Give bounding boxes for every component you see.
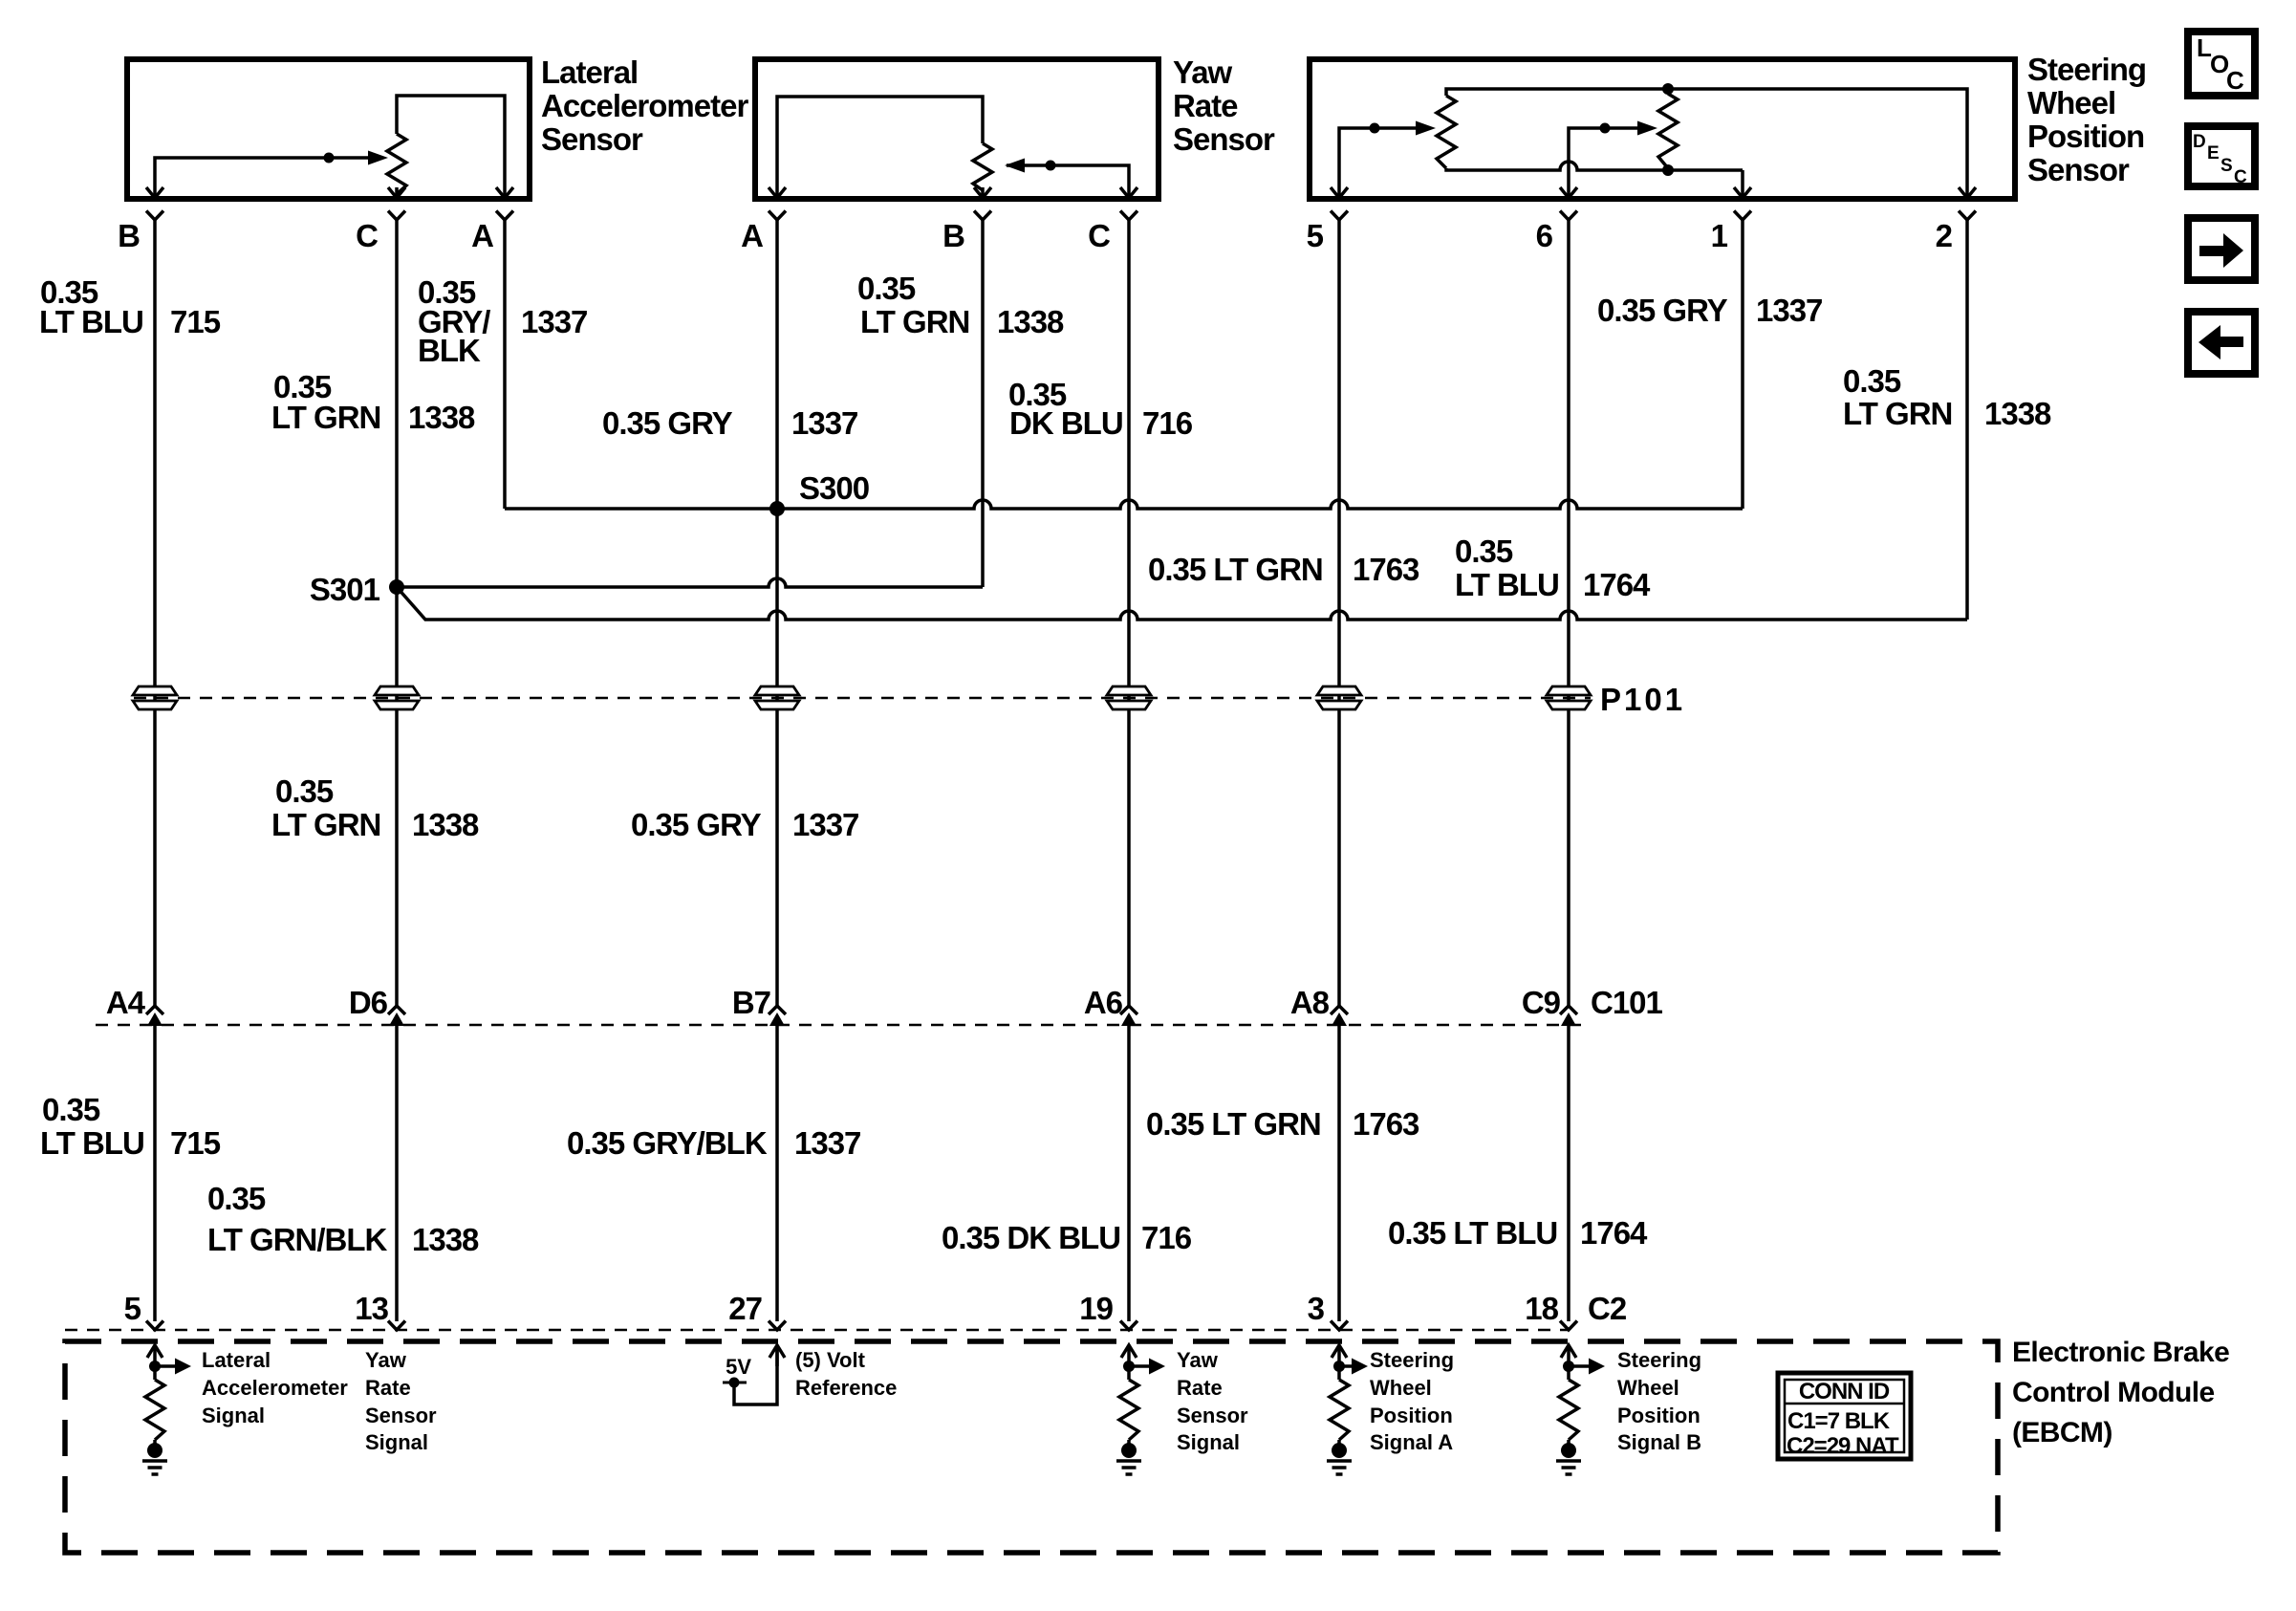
- svg-text:E: E: [2207, 143, 2220, 163]
- svg-text:715: 715: [170, 1125, 221, 1161]
- svg-text:1337: 1337: [521, 304, 587, 339]
- svg-text:Accelerometer: Accelerometer: [541, 88, 748, 123]
- pin C terminal fork: [388, 211, 405, 221]
- wire pin 6 internal: [1569, 128, 1648, 196]
- svg-text:Steering: Steering: [2027, 52, 2146, 87]
- svg-text:B: B: [118, 218, 140, 253]
- EBCM 5V reference circuit: [769, 1345, 785, 1358]
- resistor steering R1: [1437, 96, 1456, 168]
- wire 5 steering to EBCM pin3: [1337, 220, 1341, 1007]
- svg-text:C1=7 BLK: C1=7 BLK: [1787, 1408, 1891, 1434]
- svg-text:LT BLU: LT BLU: [40, 1125, 144, 1161]
- svg-text:0.35: 0.35: [857, 271, 916, 306]
- previous arrow icon box: [2188, 312, 2255, 374]
- EBCM connector dashed line: [65, 1329, 1569, 1332]
- svg-text:Sensor: Sensor: [1177, 1404, 1248, 1427]
- svg-text:6: 6: [1536, 218, 1553, 253]
- wire 6 steering to EBCM pin18: [1567, 220, 1570, 1007]
- splice S300: [769, 501, 785, 516]
- pin 2 terminal fork: [1959, 211, 1976, 221]
- label 0.35 LT BLU 715 lower: [40, 1092, 221, 1161]
- svg-text:1338: 1338: [997, 304, 1064, 339]
- arrow into pin A: [496, 187, 513, 198]
- svg-text:Wheel: Wheel: [1617, 1376, 1679, 1400]
- svg-text:B: B: [942, 218, 964, 253]
- label 0.35 GRY 1337 steering: [1597, 293, 1822, 328]
- wire B yaw to S301: [981, 220, 985, 587]
- svg-text:(EBCM): (EBCM): [2012, 1417, 2112, 1448]
- label 0.35 DK BLU 716 lower: [942, 1220, 1192, 1255]
- EBCM pin 19 terminal fork: [1120, 1321, 1137, 1331]
- svg-text:1764: 1764: [1580, 1215, 1648, 1251]
- DESC icon box: [2188, 126, 2255, 187]
- label 0.35 LT GRN 1763 lower: [1146, 1106, 1419, 1142]
- svg-text:A4: A4: [106, 985, 146, 1020]
- svg-text:Rate: Rate: [365, 1376, 411, 1400]
- wire resistor top loop to pin A: [397, 96, 505, 196]
- svg-text:0.35 DK BLU: 0.35 DK BLU: [942, 1220, 1120, 1255]
- pin 6 terminal fork: [1560, 211, 1577, 221]
- svg-text:18: 18: [1525, 1291, 1558, 1326]
- node top rail R2: [1662, 83, 1674, 95]
- arrow into pin A yaw: [769, 187, 786, 198]
- node wiper junction box1: [324, 153, 335, 163]
- svg-text:Position: Position: [1617, 1404, 1700, 1427]
- svg-text:Signal: Signal: [202, 1404, 265, 1427]
- label 0.35 GRY/BLK 1337: [418, 274, 587, 368]
- label 0.35 LT GRN 1338 lateral: [271, 369, 475, 435]
- svg-text:Control Module: Control Module: [2012, 1377, 2215, 1408]
- svg-text:1337: 1337: [794, 1125, 860, 1161]
- connector P101 pass-through at x813: [755, 686, 799, 695]
- label 0.35 LT BLU 715: [39, 274, 221, 339]
- pin 5 terminal fork: [1331, 211, 1348, 221]
- pin B terminal fork: [146, 211, 163, 221]
- CONN ID table: [1778, 1373, 1911, 1459]
- wire pin 5 internal: [1339, 128, 1426, 196]
- connector P101 pass-through at x1641: [1547, 686, 1591, 695]
- EBCM lateral accelerometer signal circuit: [147, 1345, 162, 1358]
- svg-text:Steering: Steering: [1370, 1348, 1454, 1372]
- EBCM 5 volt reference text: [795, 1348, 897, 1400]
- svg-text:0.35: 0.35: [42, 1092, 100, 1127]
- wire S300 splice run: [505, 500, 1743, 509]
- connector C101 terminal A4: [146, 1006, 163, 1014]
- EBCM steering wheel position signal B text: [1617, 1348, 1701, 1454]
- svg-text:B7: B7: [732, 985, 770, 1020]
- EBCM lateral accelerometer signal text: [202, 1348, 348, 1427]
- wiper arrow into R2: [1637, 121, 1657, 136]
- connector P101 pass-through at x162: [133, 686, 177, 695]
- svg-text:S301: S301: [310, 572, 380, 607]
- svg-text:Yaw: Yaw: [365, 1348, 407, 1372]
- splice S301: [389, 579, 404, 595]
- EBCM pin 5 terminal fork: [146, 1321, 163, 1331]
- pin A terminal fork: [769, 211, 786, 221]
- svg-text:1337: 1337: [792, 807, 858, 842]
- svg-text:0.35 LT GRN: 0.35 LT GRN: [1148, 552, 1323, 587]
- arrow into pin 1: [1734, 187, 1751, 198]
- pin A terminal fork: [496, 211, 513, 221]
- resistor lateral accelerometer: [387, 134, 406, 194]
- resistor steering R2: [1666, 89, 1670, 94]
- svg-text:1337: 1337: [1756, 293, 1822, 328]
- EBCM pin 27 terminal fork: [769, 1321, 786, 1331]
- pin B terminal fork: [974, 211, 991, 221]
- EBCM steering wheel position signal A circuit: [1332, 1345, 1347, 1358]
- pin C terminal fork: [1120, 211, 1137, 221]
- EBCM steering wheel position signal A text: [1370, 1348, 1454, 1454]
- wire S301 branch to yaw B: [397, 578, 983, 587]
- svg-text:1: 1: [1711, 218, 1728, 253]
- svg-text:LT BLU: LT BLU: [39, 304, 143, 339]
- svg-text:715: 715: [170, 304, 221, 339]
- svg-text:D: D: [2193, 132, 2206, 152]
- EBCM steering wheel position signal B circuit: [1561, 1345, 1576, 1358]
- connector P101 dashed line: [134, 697, 1591, 700]
- label 0.35 GRY 1337 yaw: [602, 405, 857, 441]
- svg-text:Sensor: Sensor: [2027, 152, 2130, 187]
- svg-text:A: A: [471, 218, 493, 253]
- svg-text:Signal: Signal: [1177, 1430, 1240, 1454]
- wire 1 steering to S300: [1741, 220, 1744, 509]
- svg-text:Electronic Brake: Electronic Brake: [2012, 1337, 2229, 1368]
- svg-text:C2=29 NAT: C2=29 NAT: [1787, 1433, 1899, 1459]
- svg-text:1763: 1763: [1353, 552, 1419, 587]
- wiper arrow yaw: [1005, 159, 1025, 173]
- arrow resistor to pin C: [395, 187, 399, 197]
- next arrow icon box: [2188, 218, 2255, 280]
- svg-text:5: 5: [124, 1291, 141, 1326]
- connector P101 pass-through at x1401: [1317, 686, 1361, 695]
- wire S301 branch to steering 2: [397, 587, 1967, 620]
- svg-text:Yaw: Yaw: [1177, 1348, 1219, 1372]
- wire pin B internal: [155, 158, 382, 196]
- LOC icon box: [2188, 32, 2255, 96]
- connector C101 terminal A8: [1331, 1006, 1348, 1014]
- label 0.35 LT GRN 1338 mid: [271, 773, 479, 842]
- svg-text:27: 27: [728, 1291, 762, 1326]
- svg-text:Rate: Rate: [1173, 88, 1238, 123]
- top rail steering sensor: [1446, 89, 1967, 196]
- EBCM module dashed box: [65, 1341, 1998, 1553]
- svg-text:0.35: 0.35: [207, 1181, 266, 1216]
- wire pin A yaw internal: [777, 97, 983, 196]
- svg-text:LT GRN: LT GRN: [271, 807, 380, 842]
- connector P101 pass-through at x415: [375, 686, 419, 695]
- EBCM yaw rate sensor signal text pin19: [1177, 1348, 1248, 1454]
- svg-text:A6: A6: [1084, 985, 1123, 1020]
- label 0.35 DK BLU 716: [1008, 377, 1193, 441]
- connector C101 terminal D6: [388, 1006, 405, 1014]
- svg-text:(5) Volt: (5) Volt: [795, 1348, 866, 1372]
- svg-text:LT GRN: LT GRN: [271, 400, 380, 435]
- svg-text:Lateral: Lateral: [202, 1348, 271, 1372]
- arrow into pin 2: [1959, 187, 1976, 198]
- wiper arrow box1: [368, 151, 388, 165]
- svg-text:1337: 1337: [791, 405, 857, 441]
- steering wheel position sensor box: [1310, 59, 2015, 199]
- svg-text:0.35 LT GRN: 0.35 LT GRN: [1146, 1106, 1321, 1142]
- EBCM module label: [2012, 1337, 2229, 1448]
- connector C101 terminal B7: [769, 1006, 786, 1014]
- connector C101 terminal A6: [1120, 1006, 1137, 1014]
- svg-text:Sensor: Sensor: [1173, 121, 1275, 157]
- svg-text:Reference: Reference: [795, 1376, 897, 1400]
- lateral accelerometer sensor box: [127, 59, 530, 199]
- svg-text:716: 716: [1141, 1220, 1192, 1255]
- wire C lateral accel to EBCM pin13: [395, 220, 399, 1007]
- svg-text:1338: 1338: [1984, 396, 2051, 431]
- svg-text:1338: 1338: [412, 1222, 479, 1257]
- wire B lateral accel to EBCM pin5: [153, 220, 157, 1007]
- svg-text:CONN ID: CONN ID: [1799, 1379, 1890, 1404]
- svg-text:LT BLU: LT BLU: [1455, 567, 1559, 602]
- svg-text:A: A: [741, 218, 763, 253]
- svg-text:C: C: [356, 218, 378, 253]
- arrow into pin C yaw: [1120, 187, 1137, 198]
- svg-text:0.35 GRY: 0.35 GRY: [1597, 293, 1728, 328]
- svg-text:A8: A8: [1290, 985, 1330, 1020]
- node pin5 wiper: [1370, 123, 1380, 134]
- svg-text:Signal: Signal: [365, 1430, 428, 1454]
- svg-text:DK BLU: DK BLU: [1009, 405, 1123, 441]
- yaw rate sensor box: [755, 59, 1159, 199]
- svg-text:S300: S300: [799, 470, 869, 506]
- wire A yaw to EBCM pin27: [775, 220, 779, 1007]
- yaw rate sensor label: [1173, 54, 1275, 157]
- svg-text:0.35 LT BLU: 0.35 LT BLU: [1388, 1215, 1557, 1251]
- node wiper junction yaw: [1046, 161, 1056, 171]
- svg-text:0.35: 0.35: [275, 773, 334, 809]
- wire C yaw to EBCM pin19: [1127, 220, 1131, 1007]
- svg-text:Wheel: Wheel: [1370, 1376, 1432, 1400]
- wire pin C yaw internal: [1007, 165, 1129, 196]
- svg-text:0.35 GRY: 0.35 GRY: [602, 405, 733, 441]
- label 0.35 LT BLU 1764 upper: [1455, 533, 1651, 602]
- svg-text:1763: 1763: [1353, 1106, 1419, 1142]
- svg-text:0.35: 0.35: [1843, 363, 1901, 399]
- wire 2 steering to S301: [1965, 220, 1969, 620]
- arrow into pin 5: [1331, 187, 1348, 198]
- svg-text:Signal B: Signal B: [1617, 1430, 1701, 1454]
- svg-text:P101: P101: [1600, 682, 1685, 717]
- svg-text:Wheel: Wheel: [2027, 85, 2115, 120]
- svg-text:2: 2: [1936, 218, 1953, 253]
- label 0.35 GRY 1337 mid: [631, 807, 858, 842]
- svg-text:0.35 GRY: 0.35 GRY: [631, 807, 762, 842]
- label 0.35 LT GRN 1763 upper: [1148, 552, 1419, 587]
- svg-text:Position: Position: [1370, 1404, 1453, 1427]
- connector P101 pass-through at x1181: [1107, 686, 1151, 695]
- svg-text:LT GRN: LT GRN: [1843, 396, 1952, 431]
- svg-text:Lateral: Lateral: [541, 54, 638, 90]
- connector C101 terminal C9: [1560, 1006, 1577, 1014]
- svg-text:Yaw: Yaw: [1173, 54, 1233, 90]
- EBCM pin 13 terminal fork: [388, 1321, 405, 1331]
- resistor yaw rate: [973, 143, 992, 190]
- arrow into pin 6: [1560, 187, 1577, 198]
- svg-text:5: 5: [1307, 218, 1324, 253]
- svg-text:13: 13: [355, 1291, 388, 1326]
- arrow resistor to pin B yaw: [981, 187, 985, 197]
- EBCM pin 3 terminal fork: [1331, 1321, 1348, 1331]
- label 0.35 LT GRN 1338 yaw: [857, 271, 1064, 339]
- svg-text:Signal A: Signal A: [1370, 1430, 1453, 1454]
- node bottom rail R2: [1662, 164, 1674, 176]
- svg-text:C2: C2: [1588, 1291, 1627, 1326]
- svg-text:C101: C101: [1591, 985, 1663, 1020]
- svg-text:Accelerometer: Accelerometer: [202, 1376, 348, 1400]
- EBCM pin 18 terminal fork: [1560, 1321, 1577, 1331]
- svg-text:D6: D6: [349, 985, 388, 1020]
- svg-text:C: C: [2234, 167, 2247, 187]
- svg-text:Sensor: Sensor: [541, 121, 643, 157]
- svg-text:LT GRN/BLK: LT GRN/BLK: [207, 1222, 388, 1257]
- svg-text:Rate: Rate: [1177, 1376, 1223, 1400]
- svg-text:1764: 1764: [1583, 567, 1651, 602]
- svg-text:C: C: [2226, 66, 2244, 95]
- steering wheel position sensor label: [2027, 52, 2146, 187]
- svg-text:Position: Position: [2027, 119, 2144, 154]
- node pin6 wiper: [1600, 123, 1611, 134]
- svg-text:1338: 1338: [412, 807, 479, 842]
- svg-text:5V: 5V: [726, 1355, 751, 1379]
- svg-text:LT GRN: LT GRN: [860, 304, 969, 339]
- pin 1 terminal fork: [1734, 211, 1751, 221]
- svg-text:19: 19: [1079, 1291, 1113, 1326]
- svg-text:S: S: [2220, 156, 2233, 176]
- label 0.35 LT GRN/BLK 1338 lower: [207, 1181, 479, 1257]
- svg-text:0.35 GRY/BLK: 0.35 GRY/BLK: [567, 1125, 768, 1161]
- svg-text:Steering: Steering: [1617, 1348, 1701, 1372]
- svg-text:Sensor: Sensor: [365, 1404, 437, 1427]
- svg-text:1338: 1338: [408, 400, 475, 435]
- wiper arrow into R1: [1416, 121, 1436, 136]
- svg-text:C: C: [1088, 218, 1110, 253]
- svg-text:C9: C9: [1522, 985, 1561, 1020]
- EBCM yaw rate sensor signal text pin13: [365, 1348, 437, 1454]
- svg-text:716: 716: [1142, 405, 1193, 441]
- svg-text:3: 3: [1308, 1291, 1325, 1326]
- svg-text:0.35: 0.35: [1455, 533, 1513, 569]
- wire A lateral accel to S300: [503, 220, 507, 509]
- svg-text:BLK: BLK: [418, 333, 481, 368]
- label 0.35 LT BLU 1764 lower: [1388, 1215, 1648, 1251]
- label 0.35 LT GRN 1338 steering: [1843, 363, 2051, 431]
- label 0.35 GRY/BLK 1337 lower: [567, 1125, 860, 1161]
- EBCM yaw rate sensor signal circuit pin19: [1121, 1345, 1137, 1358]
- lateral accelerometer sensor label: [541, 54, 748, 157]
- arrow into pin B: [146, 187, 163, 198]
- bottom rail steering sensor: [1446, 162, 1743, 170]
- connector C101 dashed line: [96, 1024, 1587, 1027]
